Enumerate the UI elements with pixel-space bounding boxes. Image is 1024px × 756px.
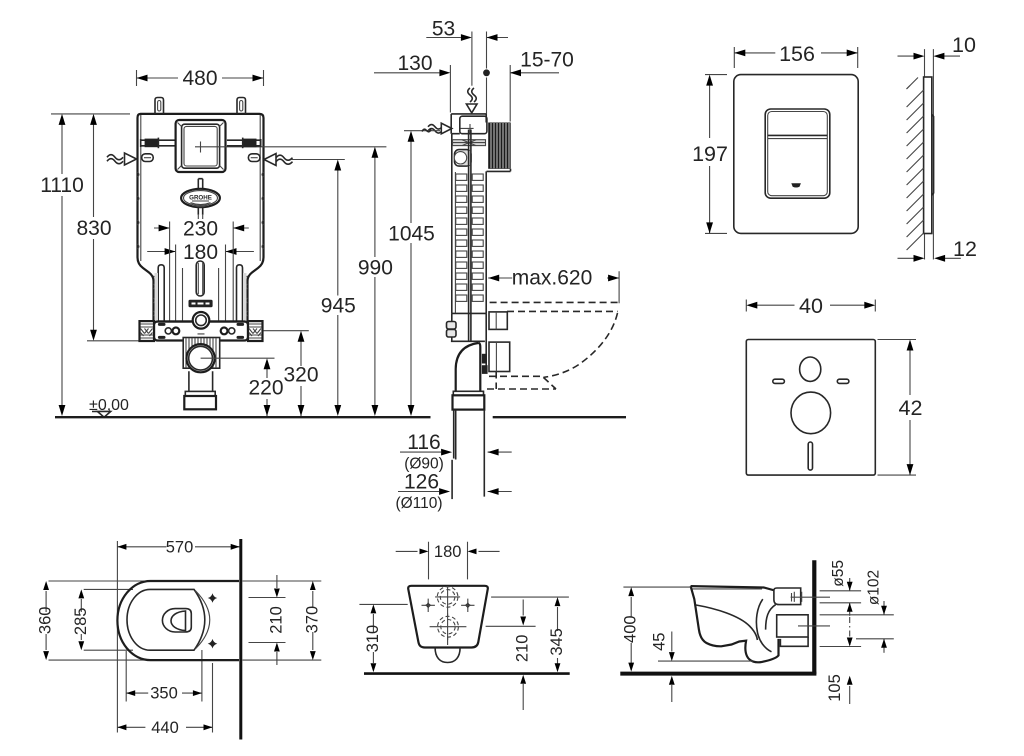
svg-text:320: 320 [283, 364, 318, 387]
dim 126 (Ø110) [395, 471, 511, 513]
tank centre tube side [469, 130, 471, 341]
dim 210 [267, 575, 285, 665]
lower dashed hole [438, 616, 459, 637]
svg-text:570: 570 [166, 538, 194, 556]
flush stub box upper [489, 312, 507, 330]
svg-text:220: 220 [248, 377, 283, 400]
dim 570 [117, 538, 239, 729]
outlet semicircle [435, 648, 460, 663]
svg-text:945: 945 [321, 295, 356, 318]
dim 156 [734, 42, 857, 68]
dashed toilet outline side [487, 302, 619, 389]
foot detail [780, 637, 808, 646]
dim 370 [303, 581, 321, 660]
VIEW2 side view of frame in wall [292, 18, 620, 513]
bracket fixing holes [165, 328, 235, 335]
svg-text:116: 116 [407, 431, 440, 454]
pad big hole [791, 392, 831, 434]
seal rings black [482, 354, 487, 364]
dim 400 [622, 587, 691, 672]
tank body side [452, 134, 486, 314]
VIEW7 toilet side view [620, 560, 894, 704]
dim 1045 [388, 129, 440, 416]
bracket side profile [447, 313, 487, 371]
dim 830 [76, 114, 140, 341]
finished wall wavy arrow left [107, 153, 137, 165]
frame body outline [138, 114, 264, 322]
svg-text:440: 440 [151, 719, 179, 737]
pipe axis dot [483, 69, 490, 76]
anchor rod left [141, 138, 175, 149]
dim max.620 [488, 267, 619, 304]
finished wall wavy arrow left side view [428, 123, 452, 134]
svg-text:(Ø110): (Ø110) [395, 495, 442, 512]
anchor rod right [227, 138, 261, 149]
upper dashed hole [437, 587, 458, 608]
VIEW5 toilet top view [37, 538, 322, 739]
fixing sparkle left [422, 599, 435, 612]
svg-text:ø102: ø102 [866, 570, 883, 605]
centre cross and level line to side view [195, 142, 386, 153]
drain stub box lower [489, 342, 510, 371]
dim 45 [650, 632, 753, 703]
svg-text:370: 370 [303, 606, 321, 634]
svg-text:230: 230 [183, 218, 218, 241]
outlet elbow [453, 343, 485, 410]
VIEW3 flush plate front + side [692, 33, 977, 262]
fixing sparkle bottom [208, 639, 218, 649]
svg-text:105: 105 [826, 674, 844, 702]
dim 220 [248, 358, 283, 416]
dim 350 [126, 685, 202, 703]
tank ladder rungs [456, 174, 483, 301]
dim 105 [826, 638, 853, 705]
centreline dash between [849, 617, 851, 645]
side slot left [142, 154, 154, 162]
fixing sparkle top [208, 593, 218, 603]
VIEW4 sound insulation pad [746, 294, 922, 475]
dim 285 [72, 589, 90, 650]
svg-text:126: 126 [404, 471, 439, 494]
svg-text:345: 345 [548, 628, 566, 656]
drain pipe below floor [452, 410, 484, 500]
svg-text:45: 45 [650, 633, 668, 651]
frame head side view [451, 114, 487, 134]
svg-text:ø55: ø55 [830, 560, 847, 587]
label plate black [189, 300, 213, 307]
frame narrow edge grey strips [155, 273, 159, 321]
svg-text:156: 156 [779, 42, 815, 66]
svg-text:53: 53 [432, 18, 455, 41]
dim 15-70 [510, 49, 574, 77]
dim 42 [878, 340, 923, 476]
small flush mark [791, 183, 801, 187]
pad bottom slot [808, 442, 812, 470]
frame edge scallop notches left [138, 172, 156, 316]
top tab left [155, 98, 164, 114]
seat top lines [691, 586, 775, 590]
svg-text:350: 350 [150, 685, 178, 703]
svg-text:42: 42 [899, 396, 923, 420]
centre axis [447, 587, 449, 646]
bracket end cap left (hatched) [140, 321, 155, 341]
svg-text:310: 310 [364, 625, 382, 653]
dim 53 [426, 18, 508, 41]
tank side pipes [158, 265, 242, 322]
ground line rear [364, 672, 570, 675]
svg-text:15-70: 15-70 [520, 49, 574, 72]
side slot right [248, 154, 260, 162]
dim 180 inner [147, 241, 254, 264]
outlet flange hatched [183, 338, 220, 369]
svg-text:400: 400 [622, 615, 640, 643]
svg-text:210: 210 [514, 635, 532, 663]
svg-text:830: 830 [76, 217, 111, 240]
frame inner edge double lines [141, 115, 260, 320]
pad top hole [800, 357, 821, 381]
svg-text:12: 12 [953, 237, 977, 261]
GROHE logo [181, 179, 220, 215]
dim 320 [263, 331, 318, 416]
body trapezoid [408, 586, 488, 648]
dim 310 [359, 604, 407, 672]
fixing sparkle right [461, 599, 474, 612]
lower mounting block [777, 615, 830, 637]
pad side slots [773, 379, 785, 383]
dim 230 [154, 218, 249, 241]
dim ø102 [866, 570, 887, 653]
wall hatching [907, 78, 924, 251]
svg-text:max.620: max.620 [512, 267, 593, 290]
dim 12 [898, 237, 977, 262]
bracket end cap right (hatched) [248, 321, 263, 341]
inspection window [176, 120, 226, 172]
dim 360 [37, 581, 55, 660]
svg-text:10: 10 [952, 33, 976, 57]
dim 945 with wavy extension [292, 160, 356, 417]
outlet drop pipe [184, 371, 216, 409]
top tab right [237, 98, 246, 114]
flush opening D [162, 609, 191, 632]
dim ø55 [830, 560, 853, 616]
dim 345 rear [548, 597, 566, 672]
dim 210 rear [486, 597, 569, 710]
tank wall extension lines [170, 222, 234, 322]
svg-text:40: 40 [799, 294, 823, 318]
grey joint band [453, 140, 486, 146]
extension lines right of wall [820, 591, 894, 647]
seat hinge block [774, 588, 830, 605]
svg-text:360: 360 [37, 607, 55, 635]
frame edge scallop notches right [246, 172, 264, 316]
wall line side [812, 560, 816, 674]
steam wavy arrow down at top [466, 88, 477, 113]
dim 1110 [40, 114, 130, 416]
VIEW1 front view of concealed frame [40, 67, 626, 417]
dim 116 (Ø90) [400, 431, 512, 473]
datum level ±0,00 [89, 397, 129, 417]
valve seat [455, 150, 472, 167]
toilet profile [691, 586, 779, 662]
dim 440 [117, 719, 212, 737]
svg-text:990: 990 [358, 257, 393, 280]
pad square [746, 340, 875, 476]
svg-text:1110: 1110 [40, 174, 84, 197]
outlet circle [187, 344, 275, 372]
finished wall wavy arrow right [264, 154, 293, 166]
svg-text:197: 197 [692, 142, 728, 166]
svg-text:180: 180 [434, 543, 462, 561]
bowl rim inner [127, 589, 210, 650]
svg-text:480: 480 [182, 67, 217, 90]
centre flush tube [196, 215, 204, 296]
VIEW6 toilet rear view [359, 542, 569, 710]
extension lines horizontals [49, 581, 322, 733]
dim 990 [358, 147, 393, 416]
svg-text:285: 285 [72, 608, 90, 636]
bottom bracket bar [154, 322, 248, 341]
dim 10 [898, 33, 976, 60]
dim 180 [396, 542, 500, 580]
svg-text:1045: 1045 [388, 223, 435, 246]
dim 40 [746, 294, 875, 318]
ground line [55, 416, 626, 418]
dim 130 [374, 52, 450, 76]
wall line top view [239, 539, 242, 740]
water inlet connection circle [193, 312, 210, 338]
wall block hatched [487, 123, 511, 172]
dim 197 [692, 75, 728, 234]
ground line side [620, 672, 816, 676]
extension lines top [450, 32, 510, 123]
svg-text:130: 130 [397, 52, 432, 75]
dim 480 [137, 67, 264, 90]
flush plate front [734, 75, 858, 234]
flush plate side profile [907, 49, 934, 259]
svg-text:210: 210 [267, 606, 285, 634]
bowl outer outline [117, 581, 239, 660]
